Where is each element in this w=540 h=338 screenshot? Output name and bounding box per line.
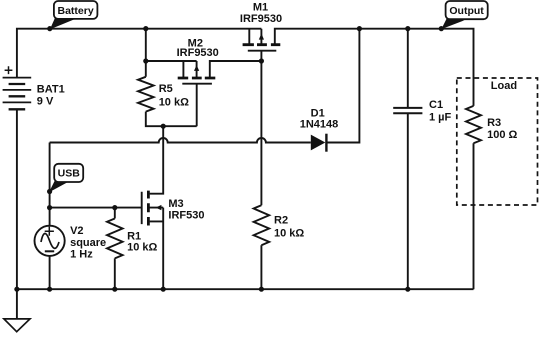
- svg-text:R5: R5: [159, 83, 173, 95]
- svg-text:Output: Output: [449, 5, 484, 17]
- svg-text:1N4148: 1N4148: [300, 119, 339, 131]
- svg-text:100 Ω: 100 Ω: [487, 129, 517, 141]
- svg-text:Load: Load: [491, 80, 517, 92]
- svg-text:IRF9530: IRF9530: [240, 13, 282, 25]
- svg-text:IRF9530: IRF9530: [177, 47, 219, 59]
- svg-text:Battery: Battery: [58, 5, 94, 17]
- svg-text:BAT1: BAT1: [37, 84, 65, 96]
- svg-text:10 kΩ: 10 kΩ: [274, 227, 304, 239]
- svg-text:R3: R3: [487, 117, 501, 129]
- svg-text:10 kΩ: 10 kΩ: [127, 241, 157, 253]
- svg-text:C1: C1: [429, 99, 443, 111]
- svg-text:USB: USB: [58, 168, 81, 180]
- svg-text:1 Hz: 1 Hz: [70, 248, 93, 260]
- svg-text:IRF530: IRF530: [168, 210, 204, 222]
- svg-text:10 kΩ: 10 kΩ: [159, 96, 189, 108]
- svg-text:9 V: 9 V: [37, 96, 54, 108]
- svg-text:R2: R2: [274, 215, 288, 227]
- svg-text:1 µF: 1 µF: [429, 111, 452, 123]
- svg-text:square: square: [70, 237, 106, 249]
- svg-text:D1: D1: [311, 107, 325, 119]
- svg-text:V2: V2: [70, 225, 83, 237]
- svg-text:M1: M1: [253, 1, 268, 13]
- svg-text:M3: M3: [168, 198, 183, 210]
